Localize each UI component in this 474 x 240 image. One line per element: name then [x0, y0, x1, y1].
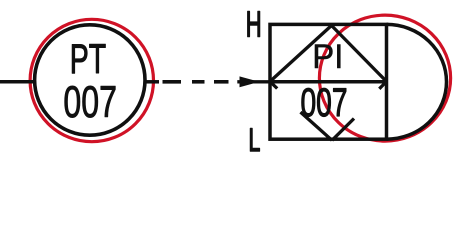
tag PT — [70, 36, 106, 83]
instrument bubble PT — [35, 25, 145, 135]
svg-text:PT: PT — [70, 36, 106, 83]
V mark left arm — [301, 112, 333, 140]
svg-text:007: 007 — [301, 81, 348, 125]
svg-text:007: 007 — [63, 78, 117, 127]
diamond top-left edge — [270, 26, 332, 82]
semicircle on right of square — [387, 24, 447, 139]
diamond bottom-left edge stub — [270, 82, 277, 89]
V mark right arm — [332, 119, 354, 141]
dashed signal line — [163, 80, 182, 84]
diamond top-right edge — [332, 26, 387, 82]
diamond bottom-right edge stub — [379, 82, 386, 89]
dash 2 — [192, 80, 205, 84]
dash 3 — [214, 80, 229, 84]
wire left stub — [0, 80, 35, 84]
shared display square — [270, 24, 387, 139]
red markup circle around PT bubble — [30, 19, 153, 141]
label H — [246, 5, 262, 45]
svg-text:L: L — [248, 122, 260, 159]
svg-text:PI: PI — [312, 38, 343, 76]
svg-text:H: H — [246, 5, 262, 45]
tag 007 — [63, 78, 117, 127]
lead line into square — [237, 80, 269, 83]
tag 007 in square — [301, 81, 348, 125]
wire right stub — [145, 80, 160, 84]
arrowhead — [240, 76, 260, 87]
red markup circle around PI square — [319, 15, 450, 141]
square midline — [270, 80, 387, 84]
tag PI — [312, 38, 343, 76]
label L — [248, 122, 260, 159]
